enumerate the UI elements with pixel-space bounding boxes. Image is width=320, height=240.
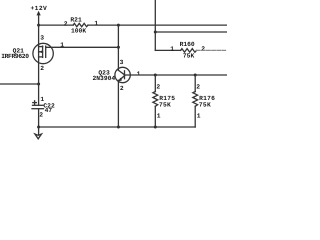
capacitor C22 top plate [33,104,44,106]
node D junction dot (source / left wire) [37,83,40,86]
value 47 [45,107,53,114]
value IRFR9620 [1,53,29,60]
svg-text:2N3904: 2N3904 [93,75,116,82]
svg-text:R160: R160 [180,41,195,48]
pin 1 of Q21 (gate) [60,42,64,49]
wire C22 bottom lead [38,109,40,135]
pin 2 of R176 [196,84,200,91]
ground [35,134,42,139]
Q21 top stub [39,46,43,48]
pin 1 of R176 [197,113,201,120]
svg-text:2: 2 [40,65,44,72]
power +12V arrow [37,11,41,16]
label R160 [180,41,195,48]
pin 2 of R160 [201,46,205,53]
wire R176 bottom lead [194,106,196,127]
svg-text:2: 2 [64,20,68,27]
svg-text:1: 1 [157,113,161,120]
label R176 [199,95,215,102]
node E junction dot (bottom rail / ground) [37,126,40,129]
node J junction dot (R176 top) [194,74,197,77]
value 75K of R176 [199,101,211,108]
resistor R175 [153,92,158,107]
svg-text:75K: 75K [199,101,211,108]
label R175 [159,95,175,102]
capacitor C22 plus sign [33,102,37,104]
Q21 middle stub [39,51,43,53]
power +12V label [31,5,48,12]
node F junction dot (Q23 emitter at bottom rail) [117,126,120,129]
pin 3 of Q21 [40,34,44,41]
wire Q23 base row [125,74,228,76]
svg-text:2: 2 [196,84,200,91]
transistor Q21 body circle [33,43,53,63]
wire Q23 emitter down [117,80,119,127]
Q23 base bar [124,71,126,79]
resistor R21 [73,23,88,26]
node C junction dot (gate wire meets collector drop) [117,46,120,49]
wire R176 top lead [194,75,196,92]
capacitor C22 bottom plate [32,108,44,110]
wire node B down to Q23 collector [117,25,119,70]
pin 1 of R21 [94,20,98,27]
pin 1 of R175 [157,113,161,120]
Q21 gate bar [45,46,47,57]
pin 2 of C22 [39,111,43,118]
node I junction dot (R175 top) [154,74,157,77]
wire bottom rail [39,126,196,128]
svg-text:2: 2 [156,84,160,91]
svg-text:R21: R21 [70,16,82,23]
pin 2 of Q21 (source) [40,65,44,72]
pin 2 of Q23 (emitter) [120,85,124,92]
svg-text:75K: 75K [159,101,171,108]
wire R175 top lead [154,75,156,92]
svg-text:IRFR9620: IRFR9620 [1,53,29,60]
svg-text:1: 1 [197,113,201,120]
label Q21 [13,47,25,54]
Q23 emitter diagonal [119,76,124,80]
value 75K of R175 [159,101,171,108]
node G junction dot (R175 at bottom rail) [154,126,157,129]
wire left edge to node D [0,83,39,85]
label C22 [43,102,55,109]
pin 1 of R160 [170,45,174,52]
wire R160 left lead [155,49,180,51]
svg-text:2: 2 [39,111,43,118]
wire top-edge vertical drop [154,0,156,50]
svg-text:+12V: +12V [31,5,48,12]
svg-text:3: 3 [120,59,124,66]
wire R175 bottom lead [154,106,156,127]
transistor Q23 body circle [115,67,130,82]
pin 2 of R175 [156,84,160,91]
wire branch to right edge [155,31,227,33]
svg-text:75K: 75K [183,53,195,60]
svg-text:2: 2 [120,85,124,92]
svg-text:100K: 100K [71,28,86,35]
value 75K of R160 [183,53,195,60]
svg-text:2: 2 [201,46,205,53]
resistor R160 [181,49,197,53]
wire +12V vertical to top rail [38,15,40,25]
pin 1 of Q23 (base) [137,70,141,77]
wire top rail right segment [88,24,227,26]
Q23 collector diagonal [118,70,124,75]
pin 3 of Q23 [120,59,124,66]
Q21 bottom stub [39,56,43,58]
Q21 drain-source vertical lead through circle [38,25,40,105]
svg-text:3: 3 [40,34,44,41]
value 100K [71,28,86,35]
svg-text:1: 1 [137,70,141,77]
wire R160 right lead [197,49,228,51]
resistor R176 [193,92,198,107]
Q21 channel bar [42,46,44,57]
node A junction dot [37,24,40,27]
wire top rail left segment [39,24,74,26]
value 2N3904 [93,75,116,82]
label R21 [70,16,82,23]
Q21 body-diode arrow [39,50,42,53]
Q23 emitter arrow [119,78,123,82]
label Q23 [98,70,110,77]
svg-text:1: 1 [170,45,174,52]
pin 1 of C22 [40,96,44,103]
pin 2 of R21 [64,20,68,27]
svg-text:47: 47 [45,107,53,114]
svg-text:1: 1 [94,20,98,27]
wire Q21 gate to node C [46,46,119,48]
node H junction dot (branch of vertical drop) [154,31,157,34]
node B junction dot (R21 out / Q23 collector drop) [117,24,120,27]
